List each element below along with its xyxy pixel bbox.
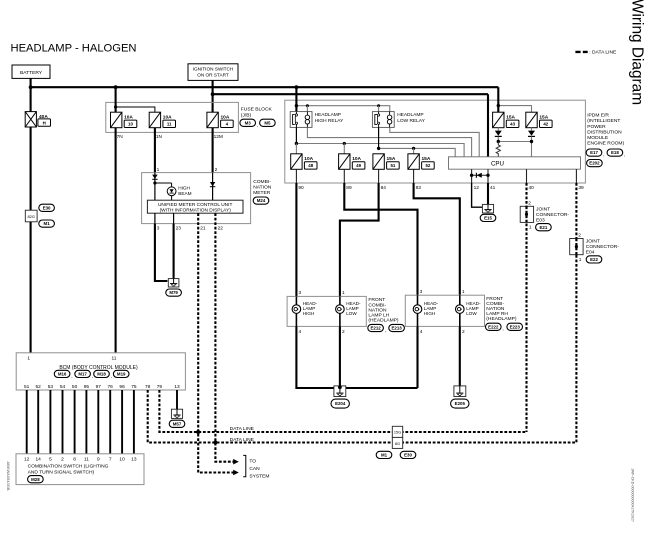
- svg-text:13: 13: [174, 384, 180, 390]
- svg-text:HIGH: HIGH: [424, 311, 435, 316]
- svg-text:E212: E212: [370, 326, 381, 331]
- connector M19: [113, 370, 129, 377]
- CAN wire BCM pin 79: [159, 390, 526, 432]
- low relay coil output to CPU: [390, 127, 479, 156]
- wire 82G to BCM pin 1: [30, 222, 32, 353]
- wire meter pin 23 to ground M79: [173, 224, 175, 279]
- svg-text:1N: 1N: [156, 134, 163, 140]
- svg-text:COMBI-: COMBI-: [486, 301, 504, 307]
- svg-text:E222: E222: [488, 324, 499, 329]
- svg-text:E04: E04: [586, 250, 595, 256]
- high beam indicator: [155, 182, 172, 184]
- svg-text:(J/B): (J/B): [241, 113, 252, 119]
- svg-text:JWF-CKD-0000000000427K2027: JWF-CKD-0000000000427K2027: [631, 468, 635, 522]
- BCM box: [16, 353, 185, 390]
- svg-text:1: 1: [342, 290, 345, 296]
- svg-text:Wiring Diagram: Wiring Diagram: [629, 0, 646, 105]
- svg-text:E202: E202: [589, 161, 600, 166]
- svg-text:8G: 8G: [395, 442, 400, 446]
- connector E205: [451, 399, 469, 408]
- svg-text:E30: E30: [43, 205, 51, 210]
- svg-text:53: 53: [48, 384, 54, 390]
- svg-text:(INTELLIGENT: (INTELLIGENT: [587, 118, 620, 124]
- wire fuse 48 (pin 90) to LH high: [295, 183, 297, 296]
- svg-text:ABKWA0543GB: ABKWA0543GB: [6, 462, 11, 491]
- svg-text:DATA LINE: DATA LINE: [230, 437, 255, 443]
- svg-text:TO: TO: [249, 458, 256, 464]
- wire fuse 52 (pin 83) to RH low: [414, 183, 460, 295]
- harness connector 82G (E30/M1): [25, 210, 37, 222]
- svg-text:50: 50: [72, 384, 78, 390]
- wire meter pin 3 to ground: [155, 224, 168, 281]
- wire fuse 51 (pin 84) to LH low: [340, 183, 379, 296]
- svg-text:BEAM: BEAM: [178, 191, 191, 196]
- fuse 4 10A (f4): [207, 112, 230, 128]
- svg-text:,: ,: [257, 124, 258, 129]
- svg-text:E17: E17: [590, 150, 598, 155]
- svg-text:CAN: CAN: [249, 466, 260, 472]
- wire LH low to ground E204: [339, 326, 341, 386]
- ignition switch: [188, 64, 238, 81]
- svg-text:2: 2: [528, 200, 531, 206]
- svg-text:DISTRIBUTION: DISTRIBUTION: [587, 129, 622, 135]
- svg-text:M57: M57: [173, 421, 182, 426]
- svg-text:8: 8: [73, 457, 76, 463]
- svg-text:SYSTEM: SYSTEM: [249, 473, 269, 479]
- CPU ground pins 12/41 with diode: [471, 169, 473, 183]
- svg-text:83: 83: [416, 185, 422, 191]
- IPDM E/R box: [285, 100, 586, 183]
- svg-text:82G: 82G: [28, 214, 35, 219]
- wire fusible link to connector 82G: [30, 127, 32, 210]
- svg-text:E204: E204: [335, 401, 346, 406]
- connector E222: [486, 323, 502, 330]
- harness connector 8G: [392, 437, 402, 448]
- CAN wire pin 40 down: [525, 183, 527, 432]
- relay headlamp high relay: [290, 112, 312, 128]
- wire BCM pin 13 to ground M57: [176, 390, 178, 409]
- diode between pins 12 and 41: [476, 173, 481, 178]
- meter internal wire 1 with diode: [154, 173, 156, 201]
- RH low beam bulb: [459, 295, 461, 305]
- svg-text:M1: M1: [381, 453, 388, 458]
- wire battery to bus and down to fusible link: [30, 78, 32, 111]
- svg-text:LAMP RH: LAMP RH: [486, 311, 508, 317]
- svg-text:HEADLAMP: HEADLAMP: [397, 112, 423, 118]
- meter internal wire 2 with diode: [212, 173, 214, 201]
- svg-text:42: 42: [543, 122, 548, 127]
- connector E202: [587, 160, 603, 167]
- connector E30: [39, 204, 55, 211]
- svg-text:(WITH INFORMATION DISPLAY): (WITH INFORMATION DISPLAY): [160, 207, 232, 213]
- svg-text:1: 1: [157, 167, 160, 173]
- svg-text:22: 22: [218, 226, 224, 232]
- high relay contact output to fuses 48/49 and CPU: [295, 127, 297, 143]
- connector M24: [253, 197, 269, 204]
- junction line under diodes: [498, 137, 531, 157]
- svg-text:4: 4: [420, 329, 423, 335]
- ground M57: [171, 409, 182, 418]
- svg-text:2: 2: [61, 457, 64, 463]
- diode under fuse 43: [497, 128, 499, 131]
- fuse 43 15A (f43): [493, 112, 516, 128]
- svg-text:HIGH: HIGH: [303, 311, 314, 316]
- svg-text:E223: E223: [510, 324, 521, 329]
- svg-text:14: 14: [36, 457, 42, 463]
- fuse 49 10A (f49): [339, 154, 362, 170]
- svg-text:89: 89: [346, 185, 352, 191]
- connector M1: [39, 220, 55, 227]
- fuse 48 10A (f48): [291, 154, 314, 170]
- svg-text:,: ,: [71, 374, 72, 379]
- svg-text:13: 13: [131, 457, 137, 463]
- svg-text:FRONT: FRONT: [486, 296, 503, 302]
- svg-text:2: 2: [578, 233, 581, 239]
- CPU CAN pins 40/39 stubs: [526, 169, 528, 183]
- RH high beam bulb: [417, 295, 419, 305]
- wire pin 41 to ground E15: [487, 183, 489, 204]
- svg-text:AND TURN SIGNAL SWITCH): AND TURN SIGNAL SWITCH): [28, 469, 95, 475]
- connector E223: [507, 323, 523, 330]
- svg-text:JOINT: JOINT: [586, 239, 600, 245]
- wire battery bus drop to headlamp relays: [295, 87, 297, 114]
- ignition feed bus: [213, 93, 488, 95]
- meter pins bottom stubs: [154, 213, 156, 223]
- svg-text:H: H: [43, 120, 46, 125]
- svg-text:15G: 15G: [394, 431, 401, 435]
- svg-text:E18: E18: [611, 150, 619, 155]
- svg-text:HEADLAMP - HALOGEN: HEADLAMP - HALOGEN: [11, 43, 137, 55]
- unified meter control unit: [147, 200, 243, 213]
- svg-text:1: 1: [27, 355, 30, 361]
- svg-text:E03: E03: [536, 217, 545, 223]
- svg-text:IPDM E/R: IPDM E/R: [587, 113, 609, 119]
- connector E17: [586, 149, 602, 156]
- svg-text:NATION: NATION: [486, 306, 505, 312]
- svg-text:UNIFIED METER CONTROL UNIT: UNIFIED METER CONTROL UNIT: [158, 202, 233, 208]
- svg-text:2: 2: [462, 329, 465, 335]
- svg-text:E22: E22: [590, 257, 598, 262]
- svg-text:10: 10: [119, 457, 125, 463]
- svg-text:LOW RELAY: LOW RELAY: [397, 118, 425, 124]
- connector M28: [28, 476, 44, 483]
- CAN wire pin 39 down: [575, 183, 577, 443]
- svg-text:3: 3: [157, 226, 160, 232]
- svg-text:1: 1: [462, 289, 465, 295]
- front combination lamp LH box: [287, 296, 366, 326]
- svg-text:E15: E15: [484, 216, 492, 221]
- connector E213: [389, 324, 405, 331]
- svg-text:E30: E30: [404, 453, 412, 458]
- svg-text:IGNITION SWITCH: IGNITION SWITCH: [193, 67, 234, 72]
- svg-text:M3: M3: [245, 120, 252, 125]
- svg-text:FUSE BLOCK: FUSE BLOCK: [241, 107, 273, 113]
- svg-text:M79: M79: [169, 290, 178, 295]
- svg-text:M16: M16: [58, 372, 67, 377]
- svg-text:76: 76: [108, 384, 114, 390]
- svg-text:HIGH RELAY: HIGH RELAY: [315, 118, 344, 124]
- svg-text:4: 4: [299, 329, 302, 335]
- svg-text:METER: METER: [253, 190, 271, 196]
- svg-text:11: 11: [167, 122, 172, 127]
- svg-text:DATA LINE: DATA LINE: [230, 426, 255, 432]
- svg-text:COMBI-: COMBI-: [253, 179, 271, 185]
- fuse 11 10A (f11): [149, 112, 172, 128]
- CPU box: [449, 157, 581, 169]
- LH low beam bulb: [339, 296, 341, 305]
- svg-text:ON OR START: ON OR START: [197, 73, 229, 78]
- wire ignition switch down to fuse 4: [212, 80, 214, 112]
- diode under fuse 42: [531, 128, 533, 131]
- svg-text:(HEADLAMP): (HEADLAMP): [368, 318, 399, 324]
- svg-text:39: 39: [578, 185, 584, 191]
- joint connector E04: [570, 239, 583, 255]
- svg-text:54: 54: [60, 384, 66, 390]
- connector E15: [480, 214, 496, 221]
- connector E30: [400, 451, 416, 458]
- wire 12M to combination meter pin 2: [212, 128, 214, 173]
- svg-text:7: 7: [109, 457, 112, 463]
- svg-text:9: 9: [97, 457, 100, 463]
- combination meter box: [142, 173, 251, 224]
- harness connector 15G: [392, 426, 402, 437]
- ground E204: [334, 386, 346, 397]
- svg-text:52: 52: [425, 163, 430, 168]
- battery feed into IPDM fuses 43/42: [497, 87, 499, 112]
- connector E22: [586, 256, 602, 263]
- fuse 10 10A (f10): [111, 112, 134, 128]
- svg-text:M19: M19: [117, 372, 126, 377]
- LH high beam bulb: [295, 296, 297, 305]
- svg-text:NATION: NATION: [368, 307, 387, 313]
- svg-text:POWER: POWER: [587, 124, 606, 130]
- svg-text:,: ,: [502, 327, 503, 332]
- svg-text:M5: M5: [264, 120, 271, 125]
- svg-text:CONNECTOR-: CONNECTOR-: [536, 212, 569, 218]
- svg-text:90: 90: [298, 185, 304, 191]
- svg-text:MODULE: MODULE: [587, 135, 609, 141]
- svg-text:21: 21: [200, 226, 206, 232]
- joint connector E03: [520, 206, 533, 222]
- svg-text:96: 96: [119, 384, 125, 390]
- wire bus to fuse 10: [115, 87, 117, 112]
- svg-text:40: 40: [529, 185, 535, 191]
- svg-text:CPU: CPU: [491, 160, 504, 167]
- svg-text:LAMP LH: LAMP LH: [368, 313, 389, 319]
- svg-text:43: 43: [510, 122, 515, 127]
- battery B+ bus (horizontal): [31, 86, 499, 88]
- low relay contact output to fuses 51/52 and CPU: [378, 127, 380, 148]
- svg-text:5: 5: [49, 457, 52, 463]
- ignition feed down to CPU: [487, 94, 489, 157]
- svg-text:LOW: LOW: [466, 311, 477, 316]
- bracket: [243, 455, 246, 476]
- svg-text:48: 48: [308, 163, 313, 168]
- svg-text:,: ,: [603, 153, 604, 158]
- fuse 52 15A (f52): [408, 154, 431, 170]
- battery: [12, 65, 50, 78]
- CAN wire BCM pin 78: [148, 390, 577, 443]
- svg-text:(HEADLAMP): (HEADLAMP): [486, 316, 517, 322]
- CAN wire meter pin 21: [198, 213, 233, 472]
- wire 7N to BCM pin 11: [115, 128, 117, 353]
- wire fuse 49 (pin 89) to RH high: [344, 183, 417, 295]
- fuse block (J/B) box: [106, 102, 239, 132]
- svg-text:E21: E21: [539, 225, 547, 230]
- svg-text:M17: M17: [78, 372, 87, 377]
- svg-text:M24: M24: [257, 198, 266, 203]
- svg-text:COMBI-: COMBI-: [368, 302, 386, 308]
- connector M16: [54, 370, 70, 377]
- ground bus for high beams: [296, 326, 417, 388]
- svg-text:12: 12: [24, 457, 30, 463]
- svg-text:BATTERY: BATTERY: [20, 70, 43, 76]
- connector M1: [376, 451, 392, 458]
- connector E18: [607, 149, 623, 156]
- svg-text:3: 3: [299, 290, 302, 296]
- svg-text:M28: M28: [31, 477, 40, 482]
- CAN wire meter pin 22: [215, 213, 233, 462]
- svg-text:51: 51: [24, 384, 30, 390]
- svg-text:,: ,: [385, 328, 386, 333]
- svg-text:LOW: LOW: [346, 311, 357, 316]
- fuse 51 15A (f51): [373, 154, 396, 170]
- svg-text:49: 49: [356, 163, 361, 168]
- arrows to CAN system: [233, 459, 239, 465]
- connector E204: [331, 399, 349, 408]
- svg-text:11: 11: [84, 457, 89, 463]
- fuse 42 15A (f42): [526, 112, 549, 128]
- high relay coil output to CPU: [307, 127, 471, 156]
- front combination lamp RH box: [405, 295, 484, 326]
- resistor to CPU: [496, 142, 500, 157]
- combination switch box: [16, 454, 144, 485]
- svg-text:12M: 12M: [214, 134, 223, 140]
- svg-text:M1: M1: [44, 221, 51, 226]
- connector E212: [368, 324, 384, 331]
- connector M3: [240, 119, 256, 126]
- svg-text:2: 2: [215, 167, 218, 173]
- svg-text:95: 95: [84, 384, 90, 390]
- svg-text:E213: E213: [391, 326, 402, 331]
- svg-text:HEADLAMP: HEADLAMP: [315, 112, 341, 118]
- svg-text:23: 23: [176, 226, 182, 232]
- ground E205: [454, 386, 466, 397]
- svg-text:CONNECTOR-: CONNECTOR-: [586, 244, 619, 250]
- wire 1N to combination meter pin 1: [154, 128, 156, 173]
- fusible link H 40A: [25, 112, 48, 127]
- svg-text:JOINT: JOINT: [536, 206, 550, 212]
- connector E21: [536, 224, 552, 231]
- svg-text:97: 97: [96, 384, 102, 390]
- svg-text:1: 1: [529, 225, 532, 231]
- svg-text:3: 3: [420, 289, 423, 295]
- svg-text:10: 10: [128, 122, 133, 127]
- svg-text:78: 78: [145, 384, 151, 390]
- svg-text:ENGINE ROOM): ENGINE ROOM): [587, 141, 624, 147]
- svg-text:M18: M18: [97, 372, 106, 377]
- svg-text:75: 75: [131, 384, 137, 390]
- svg-text:41: 41: [490, 185, 496, 191]
- svg-text:FRONT: FRONT: [368, 297, 385, 303]
- svg-text:79: 79: [157, 384, 163, 390]
- svg-text:52: 52: [36, 384, 42, 390]
- connector M57: [169, 420, 185, 427]
- svg-text:7N: 7N: [117, 134, 124, 140]
- connector M18: [94, 370, 110, 377]
- fuse output stubs to IPDM edge: [295, 169, 297, 183]
- svg-text:E205: E205: [455, 401, 466, 406]
- relay headlamp low relay: [372, 112, 394, 128]
- svg-text:,: ,: [624, 153, 625, 158]
- svg-text:51: 51: [390, 163, 395, 168]
- connector M5: [260, 119, 276, 126]
- svg-text:84: 84: [381, 185, 387, 191]
- wire RH low to ground E205: [459, 326, 461, 386]
- ground M79: [168, 279, 179, 287]
- legend: data line sample: [575, 51, 587, 53]
- svg-text:COMBINATION SWITCH (LIGHTING: COMBINATION SWITCH (LIGHTING: [28, 463, 109, 469]
- svg-text:,: ,: [92, 374, 93, 379]
- internal branch to fuse 11: [116, 107, 155, 112]
- svg-text:11: 11: [112, 355, 117, 361]
- ground E15: [482, 204, 493, 213]
- wires BCM to combination switch: [26, 390, 28, 454]
- svg-text:12: 12: [474, 185, 480, 191]
- svg-text:2: 2: [342, 329, 345, 335]
- svg-text:NATION: NATION: [253, 185, 272, 191]
- svg-text:: DATA LINE: : DATA LINE: [589, 50, 617, 56]
- internal relay feed line: [296, 106, 389, 112]
- svg-text:,: ,: [111, 374, 112, 379]
- wire pin 12 to ground: [472, 183, 483, 207]
- svg-text:1: 1: [579, 257, 582, 263]
- connector M17: [75, 370, 91, 377]
- connector M79: [166, 289, 182, 296]
